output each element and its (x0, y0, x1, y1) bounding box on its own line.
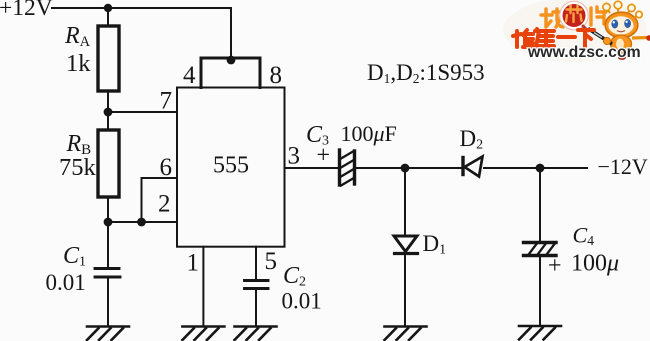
capacitor C1 (95, 267, 119, 270)
wire: D2 to -12V (484, 167, 587, 169)
mascot eyes (611, 20, 618, 29)
wire: C4 to ground (539, 257, 541, 326)
resistor RA (98, 26, 119, 91)
svg-text:+: + (317, 143, 331, 169)
svg-text:75k: 75k (59, 154, 97, 181)
svg-text:4: 4 (183, 62, 196, 89)
svg-text:100μF: 100μF (341, 121, 397, 146)
svg-text:+: + (548, 253, 562, 279)
svg-text:+12V: +12V (0, 0, 53, 21)
wei (515, 31, 519, 47)
svg-text:2: 2 (158, 191, 171, 218)
junction dot: RA/RB/pin7 node (104, 108, 113, 117)
junction dot: D1 node (401, 164, 410, 173)
junction dot: pin6/pin2 (137, 218, 146, 227)
ground (D1) (385, 327, 427, 341)
mascot head (605, 12, 638, 38)
mascot arm with handle (588, 29, 612, 45)
capacitor C4 electrolytic (524, 243, 557, 256)
svg-text:8: 8 (270, 62, 283, 89)
svg-text:7: 7 (160, 88, 173, 115)
ground (pin 1) (182, 327, 224, 341)
wire: pin 1 to ground (202, 247, 204, 326)
wire: pin 3 to C3 (285, 167, 339, 169)
ku (536, 29, 537, 31)
junction dot: C4 node (536, 164, 545, 173)
capacitor C3 electrolytic (340, 150, 355, 185)
diode D2 (461, 158, 464, 175)
wire: node to C4 (539, 168, 541, 241)
svg-text:6: 6 (160, 154, 173, 181)
wire: D1 to ground (404, 255, 406, 326)
junction dot: RB/C1/pin2 node (104, 218, 113, 227)
junction dot: pins 4/8 tie (227, 56, 236, 65)
wire: C3 to D2 (356, 167, 463, 169)
ground (C4) (519, 326, 561, 340)
svg-text:1: 1 (187, 250, 200, 277)
paper smudge tint (503, 0, 647, 62)
svg-text:0.01: 0.01 (46, 270, 86, 295)
wire: rail down to RA (107, 8, 109, 26)
wire: pin 7 (108, 111, 177, 113)
capacitor C2 (245, 279, 269, 282)
mascot antennae (608, 8, 638, 19)
mascot right arm (632, 36, 648, 40)
resistor RB (98, 130, 119, 197)
wire: pin 6 (142, 178, 178, 222)
ground (C1) (87, 327, 129, 341)
wire: pin 2 (108, 221, 177, 223)
diode D1 (394, 236, 417, 252)
wire: RB down to C1 (107, 197, 109, 268)
magnifier handle (583, 26, 588, 31)
yi (558, 35, 575, 39)
svg-text:100μ: 100μ (571, 251, 619, 277)
IC U1 555 (177, 88, 285, 247)
wire: pin 5 to C2 (255, 247, 257, 280)
mascot leg and foot (624, 50, 626, 56)
svg-text:555: 555 (213, 153, 249, 179)
svg-text:0.01: 0.01 (282, 289, 322, 314)
char pian (chip) (591, 7, 606, 25)
wire: rail down to pins 4/8 (230, 8, 232, 60)
magnifier circle with chip char (560, 2, 588, 30)
wire: node to D1 (404, 168, 406, 236)
wire: C1 to ground (107, 277, 109, 326)
ground (C2) (235, 327, 277, 341)
svg-text:3: 3 (288, 143, 301, 170)
wire: +12V rail (52, 7, 231, 9)
junction dot: rail / RA (104, 4, 112, 12)
wire: C2 to ground (255, 289, 257, 327)
wire: pins 4 and 8 bracket (201, 58, 260, 88)
svg-text:1k: 1k (66, 50, 91, 77)
xia (578, 28, 594, 32)
char zhao (find) (541, 9, 563, 27)
wire: RA to RB (107, 91, 109, 130)
svg-text:−12V: −12V (598, 154, 648, 179)
svg-text:www.dzsc.com: www.dzsc.com (527, 44, 641, 61)
brand text weiku yixia (513, 29, 594, 48)
watermark: dzsc.com logo (503, 0, 650, 62)
svg-text:5: 5 (265, 248, 278, 275)
mascot body (611, 35, 632, 53)
